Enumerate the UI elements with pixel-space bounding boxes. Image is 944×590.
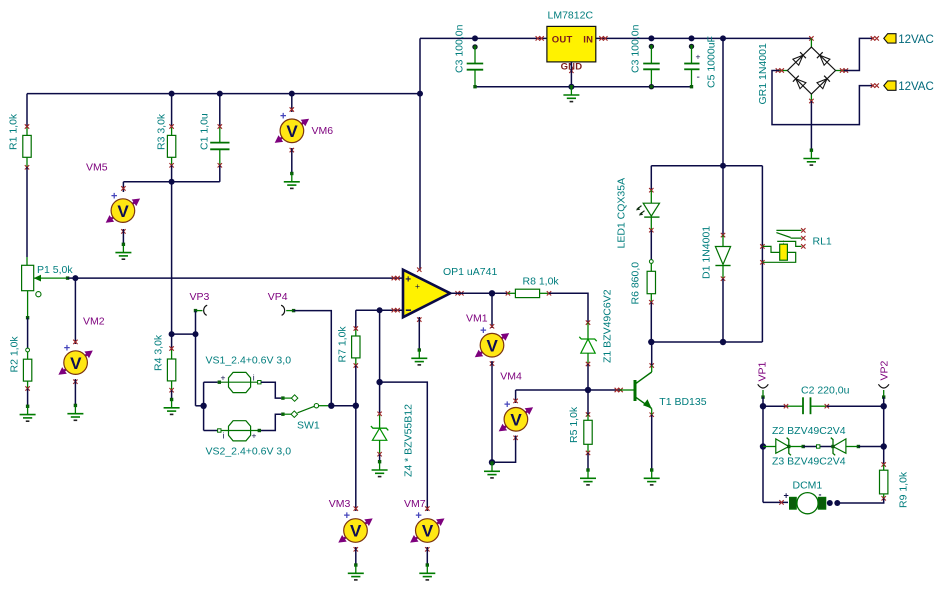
ground under opamp	[411, 348, 427, 365]
zener diode Z1	[579, 320, 596, 366]
wire to VS1 left	[204, 381, 218, 383]
svg-text:SW1: SW1	[297, 420, 320, 432]
svg-text:P1 5,0k: P1 5,0k	[37, 264, 73, 276]
svg-text:R4 3,0k: R4 3,0k	[152, 334, 164, 371]
resistor R5	[584, 390, 592, 470]
wire VS loop left vertical	[203, 382, 205, 430]
wire VP3 vertical	[195, 311, 197, 406]
node C5 top	[689, 35, 695, 41]
ground under VM1/VM4	[484, 461, 500, 478]
resistor R2	[23, 348, 31, 391]
wire left loop vertical	[762, 406, 764, 502]
voltmeter VM7	[410, 506, 444, 551]
svg-text:VP4: VP4	[268, 291, 288, 303]
node VM7 branch junction	[376, 379, 382, 385]
wire motor row left	[763, 501, 788, 503]
svg-text:C2 220,0u: C2 220,0u	[801, 385, 850, 397]
svg-text:Z2 BZV49C2V4: Z2 BZV49C2V4	[772, 425, 846, 437]
ground under VM5	[115, 243, 131, 260]
ground under VM6	[284, 172, 300, 189]
svg-text:Z4 * BZV55B12: Z4 * BZV55B12	[403, 404, 415, 477]
wire VM6 drop	[291, 94, 293, 112]
wire VM4 bottom to common ground	[492, 436, 516, 463]
svg-text:D1 1N4001: D1 1N4001	[700, 226, 712, 279]
resistor R6	[647, 260, 655, 305]
voltmeter VM1	[475, 324, 509, 366]
svg-text:C5 1000uF: C5 1000uF	[705, 36, 717, 88]
svg-text:VM3: VM3	[329, 498, 351, 510]
voltmeter VM5	[106, 186, 140, 233]
ground under regulator	[563, 85, 579, 102]
battery VS1	[218, 372, 261, 392]
wire VM3 drop	[355, 406, 357, 511]
wire C2 row right	[827, 405, 884, 407]
wire rail regulator to bridge	[596, 37, 812, 39]
wire opamp output	[450, 292, 509, 294]
voltmeter VM4	[499, 399, 533, 440]
wire VM7 link row	[380, 382, 428, 511]
resistor R4	[167, 334, 175, 392]
node Z1/R5/base junction	[585, 387, 591, 393]
wire C2 row left	[763, 405, 788, 407]
node VS loop left junction	[200, 403, 206, 409]
svg-text:R6 860,0: R6 860,0	[629, 262, 641, 305]
probe VP1	[758, 384, 769, 399]
wire Z4 branch vertical	[379, 310, 381, 415]
node Z2 left junction	[760, 443, 766, 449]
svg-text:VM4: VM4	[500, 371, 522, 383]
transistor T1 BD135	[615, 363, 654, 417]
svg-text:VM1: VM1	[466, 313, 488, 325]
wire base row	[516, 389, 620, 391]
LED LED1	[636, 188, 660, 232]
zener diode Z2	[763, 438, 805, 456]
svg-text:i: i	[253, 372, 255, 382]
wire R1 branch	[26, 94, 28, 127]
node C1 top	[217, 91, 223, 97]
svg-text:VM7: VM7	[404, 498, 426, 510]
wire relay feed vertical	[761, 166, 763, 342]
ground under bridge	[803, 149, 819, 166]
wire LED loop top row	[651, 165, 762, 167]
node LED branch top	[720, 35, 726, 41]
wire junction down to R4	[171, 182, 173, 334]
wire VM5 to ground	[122, 229, 124, 244]
svg-text:C3 100,0n: C3 100,0n	[629, 24, 641, 73]
wire VM4 drop	[515, 390, 517, 403]
svg-text:+: +	[415, 281, 420, 291]
node D1 bottom junction	[720, 339, 726, 345]
capacitor C3 right	[643, 44, 660, 89]
ground under R5	[580, 468, 596, 485]
node opamp output junction	[489, 290, 495, 296]
svg-text:R9 1,0k: R9 1,0k	[897, 471, 909, 508]
svg-text:C1 1,0u: C1 1,0u	[199, 113, 211, 150]
wire VM3 to ground	[355, 547, 357, 565]
svg-text:GR1 1N4001: GR1 1N4001	[757, 43, 769, 104]
bridge rectifier GR1 1N4001	[776, 36, 848, 103]
svg-text:12VAC: 12VAC	[898, 81, 934, 93]
node R7/VM3 junction	[353, 403, 359, 409]
node VP3/R4 row junction	[193, 331, 199, 337]
ground under VM2	[67, 404, 83, 421]
resistor R8	[506, 289, 552, 297]
node switch pole junction	[328, 403, 334, 409]
node VM1/VM4 ground junction	[489, 459, 495, 465]
node R4 top junction	[169, 331, 175, 337]
resistor R9	[880, 462, 888, 500]
ground under R2	[20, 405, 36, 422]
svg-text:+: +	[405, 274, 411, 285]
wire P1 to R2	[27, 318, 29, 348]
wire VP3 to VS loop	[196, 405, 204, 407]
svg-text:OUT: OUT	[552, 34, 573, 45]
svg-text:VP2: VP2	[878, 360, 890, 380]
node collector junction	[648, 339, 654, 345]
wire VM7 to ground	[426, 547, 428, 565]
svg-text:R2 1,0k: R2 1,0k	[9, 336, 21, 373]
svg-text:12VAC: 12VAC	[898, 34, 934, 46]
battery VS2	[218, 421, 261, 441]
capacitor C5 electrolytic	[684, 44, 700, 88]
wire LED1 to R6	[650, 230, 652, 262]
wire bridge bottom to ground	[810, 101, 812, 150]
svg-text:R5 1,0k: R5 1,0k	[568, 406, 580, 443]
resistor R1	[23, 124, 31, 169]
wire opamp supply vertical	[419, 38, 421, 270]
svg-text:VM2: VM2	[83, 316, 105, 328]
node C3 right top	[648, 35, 654, 41]
wire VM6 to ground	[291, 148, 293, 174]
node C3 left top	[472, 35, 478, 41]
wire wiper to node	[68, 277, 76, 279]
svg-text:VM5: VM5	[86, 162, 108, 174]
node R3/C1/VM5 junction	[169, 179, 175, 185]
wire opamp negative supply	[418, 317, 420, 350]
wire VP1 to C2 row	[762, 397, 764, 406]
resistor R3	[167, 124, 175, 167]
wire T1 emitter to ground	[651, 415, 653, 470]
wire top rail to regulator	[420, 37, 547, 39]
wire noninverting row to opamp	[75, 277, 403, 279]
svg-text:+: +	[221, 372, 226, 382]
wire regulator GND pin	[570, 62, 572, 87]
svg-text:T1 BD135: T1 BD135	[659, 396, 706, 408]
node VM6 top	[289, 91, 295, 97]
switch SW1 upper throw	[281, 395, 298, 402]
node Z3 right junction	[881, 443, 887, 449]
svg-text:LED1 CQX35A: LED1 CQX35A	[615, 178, 627, 249]
op-amp OP1 uA741	[392, 268, 464, 322]
ground under VM7	[419, 563, 435, 580]
svg-text:DCM1: DCM1	[793, 480, 823, 492]
node P1 wiper junction	[72, 275, 78, 281]
wire to VS2 left	[204, 430, 218, 432]
relay RL1	[760, 228, 805, 264]
svg-text:Z1 BZV49C6V2: Z1 BZV49C6V2	[602, 289, 614, 363]
resistor R7	[352, 310, 360, 406]
wire D1 to bottom row	[722, 279, 724, 342]
node regulator ground junction	[568, 84, 574, 90]
terminal 12VAC bottom	[871, 81, 896, 90]
wire VS2 right	[261, 414, 281, 430]
ground under Z4	[372, 460, 388, 477]
svg-text:R8 1,0k: R8 1,0k	[523, 276, 560, 288]
wire R2 to ground	[27, 389, 29, 407]
voltmeter VM3	[338, 506, 372, 551]
svg-text:+: +	[696, 52, 701, 62]
switch SW1 lower throw and lever	[281, 404, 331, 418]
wire R6 to collector node	[650, 302, 652, 342]
capacitor C1	[210, 124, 229, 167]
wire VS1 right	[261, 382, 281, 398]
wire VM1 bottom to common ground	[491, 361, 493, 462]
node VP1 junction	[760, 403, 766, 409]
node R3 top	[169, 91, 175, 97]
svg-text:VP1: VP1	[756, 361, 768, 381]
diode D1	[715, 233, 730, 281]
ground under R4	[164, 398, 180, 415]
wire R9 to motor row	[839, 498, 884, 503]
wire R4 junction to VP3	[172, 333, 196, 335]
wire R1 to P1	[26, 167, 28, 257]
wire bridge right to AC1	[844, 38, 872, 70]
ground under T1	[644, 468, 660, 485]
wire VM1 drop	[491, 293, 493, 328]
probe VP4	[281, 305, 295, 315]
wire LED loop bottom row	[651, 341, 762, 343]
svg-text:IN: IN	[583, 34, 593, 45]
capacitor C2	[784, 397, 829, 414]
svg-text:RL1: RL1	[813, 236, 832, 248]
wire R3 bottom to junction	[171, 165, 173, 182]
wire VP4 to switch pole	[294, 311, 332, 406]
voltmeter VM6	[275, 107, 309, 152]
wire LED branch vertical	[722, 38, 724, 165]
svg-text:+: +	[784, 491, 789, 501]
wire VP2 to C2 row	[883, 397, 885, 406]
regulator U1 LM7812C	[536, 26, 608, 73]
voltmeter VM2	[58, 340, 92, 384]
wire C1 bottom to junction row	[219, 165, 221, 182]
probe VP3	[194, 305, 207, 315]
wire Z3 to right vertical	[858, 446, 883, 448]
svg-text:i: i	[223, 431, 225, 441]
wire switch row	[331, 405, 356, 407]
zener diode Z4	[371, 412, 388, 462]
svg-text:-: -	[697, 72, 700, 83]
svg-text:VM6: VM6	[312, 125, 334, 137]
wire AC2 to bridge left	[772, 71, 872, 125]
wire right loop vertical	[883, 406, 885, 466]
svg-text:VP3: VP3	[190, 291, 210, 303]
wire between Z2 and Z3	[803, 446, 833, 448]
wire Z1 to base row	[587, 364, 589, 390]
wire VM5 drop	[122, 182, 124, 192]
wire D1 drop	[722, 166, 724, 237]
zener diode Z3	[817, 438, 861, 456]
wire VM5 junction row	[123, 181, 219, 183]
svg-text:LM7812C: LM7812C	[548, 9, 594, 21]
capacitor C3 left	[467, 45, 484, 89]
svg-text:R3 3,0k: R3 3,0k	[156, 113, 168, 150]
wire top-left rail	[27, 93, 420, 95]
node rail/opamp junction	[417, 91, 423, 97]
svg-text:R7 1,0k: R7 1,0k	[336, 326, 348, 363]
svg-text:+: +	[252, 431, 257, 441]
svg-text:C3 100,0n: C3 100,0n	[453, 24, 465, 73]
wire inverting row	[356, 309, 403, 311]
wire VM2 drop	[74, 278, 76, 344]
wire LED1 drop	[650, 166, 652, 192]
motor DCM1	[779, 490, 840, 514]
potentiometer P1	[22, 257, 70, 319]
svg-text:VS2_2.4+0.6V 3,0: VS2_2.4+0.6V 3,0	[206, 446, 292, 458]
wire decoupling bottom rail	[475, 86, 692, 88]
svg-text:R1 1,0k: R1 1,0k	[7, 113, 19, 150]
wire VM2 to ground	[74, 379, 76, 405]
ground under VM3	[348, 563, 364, 580]
svg-text:OP1 uA741: OP1 uA741	[443, 266, 497, 278]
node D1 top junction	[720, 163, 726, 169]
terminal 12VAC top	[871, 34, 896, 43]
node Z4 top junction	[377, 307, 383, 313]
wire R8 to Z1	[549, 293, 588, 324]
svg-text:Z3 BZV49C2V4: Z3 BZV49C2V4	[772, 456, 846, 468]
svg-text:VS1_2.4+0.6V 3,0: VS1_2.4+0.6V 3,0	[206, 355, 292, 367]
wire R4 to ground	[171, 390, 173, 399]
node VP2 junction	[881, 403, 887, 409]
wire C1 branch	[219, 94, 221, 127]
probe VP2	[878, 384, 889, 399]
wire T1 collector up	[651, 342, 653, 366]
resistor R3 branch wire	[171, 94, 173, 127]
